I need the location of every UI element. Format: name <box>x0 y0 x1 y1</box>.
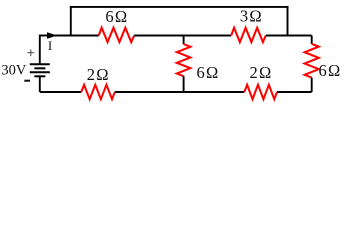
svg-text:2Ω: 2Ω <box>249 63 272 82</box>
label 6-ohm for R6 <box>318 61 341 80</box>
resistor R5 6-ohm (middle vertical) <box>177 44 191 76</box>
wire: bottom rail segment from R4 to right branch corner <box>277 91 312 93</box>
label + polarity <box>27 45 35 61</box>
resistor R3 2-ohm (bottom left horizontal) <box>81 85 115 99</box>
resistor R1 6-ohm (top horizontal) <box>99 28 135 42</box>
battery plate long 1 <box>30 63 50 65</box>
label 6-ohm for R5 <box>196 63 219 82</box>
battery plate long 2 <box>30 71 50 73</box>
svg-text:6Ω: 6Ω <box>318 61 341 80</box>
svg-text:I: I <box>48 38 52 53</box>
wire: mid rail segment between R1 and R2 (through node B) <box>134 35 231 37</box>
label minus polarity <box>24 80 30 82</box>
svg-text:6Ω: 6Ω <box>196 63 219 82</box>
battery plate short 2 <box>34 75 45 77</box>
wire: middle branch bottom stub to node C <box>183 76 185 92</box>
svg-text:2Ω: 2Ω <box>87 65 110 84</box>
wire: battery top lead <box>39 35 41 65</box>
label 6-ohm for R1 <box>105 7 128 26</box>
label 2-ohm for R3 <box>87 65 110 84</box>
label 2-ohm for R4 <box>249 63 272 82</box>
battery 30V source <box>30 35 50 92</box>
label 30V <box>1 63 27 79</box>
wire: left vertical joining top rail to mid rail <box>70 6 72 36</box>
wire: bottom rail segment between R3 and R4 (through node C) <box>115 91 245 93</box>
svg-text:6Ω: 6Ω <box>105 7 128 26</box>
current arrow I on mid rail <box>47 32 57 39</box>
resistor R2 3-ohm (top horizontal right) <box>231 28 266 42</box>
svg-text:+: + <box>27 45 35 61</box>
svg-text:3Ω: 3Ω <box>240 7 263 26</box>
resistor R4 2-ohm (bottom right horizontal) <box>244 85 277 99</box>
resistor R6 6-ohm (right vertical) <box>305 44 319 78</box>
wire: right branch bottom stub <box>311 78 313 92</box>
wire: mid rail segment from R2 to right branch corner <box>266 35 312 37</box>
svg-text:30V: 30V <box>1 63 27 79</box>
wire: mid rail segment from battery corner to resistor R1 <box>40 35 99 37</box>
label 3-ohm for R2 <box>240 7 263 26</box>
wire: battery bottom lead <box>39 76 41 92</box>
wire: right vertical drop from top rail to mid rail <box>287 6 289 36</box>
wire: right branch top stub <box>311 36 313 44</box>
wire: middle branch top stub from node B <box>183 36 185 45</box>
wire: top rail from left junction to right drop <box>70 6 289 8</box>
wire: bottom rail segment from battery to R3 <box>40 91 82 93</box>
battery plate short 1 <box>34 67 45 69</box>
label I <box>48 38 52 53</box>
